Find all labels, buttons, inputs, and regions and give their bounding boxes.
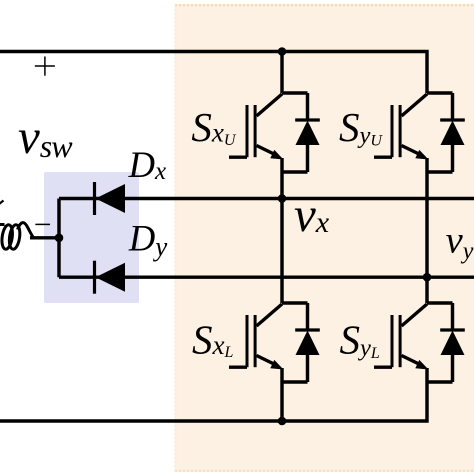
- svg-text:vsw: vsw: [18, 109, 73, 164]
- svg-text:Dy: Dy: [128, 217, 167, 261]
- svg-text:Dx: Dx: [128, 144, 166, 185]
